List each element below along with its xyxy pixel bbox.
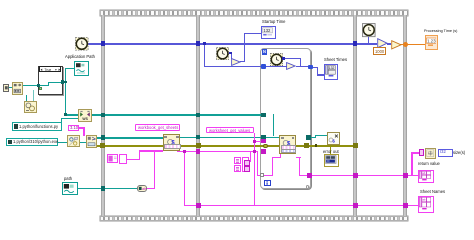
junction: case output joins app-path wire: [64, 81, 67, 84]
junction: label wire to loop y141: [253, 140, 256, 143]
Application Path terminal: [74, 61, 89, 76]
wire: inside case: [40, 85, 49, 86]
Sheet Times label: [324, 58, 347, 62]
svg-text:ab: ab: [142, 187, 146, 191]
flat sequence frame1|2 wall: [196, 15, 201, 216]
return value label: [418, 162, 440, 166]
wire: magenta return value line y175: [311, 175, 418, 177]
wire: magenta N4 out down: [296, 157, 301, 158]
wire: subtract2 out to vertical: [240, 61, 244, 62]
node N2 open session: [86, 135, 97, 147]
wire: clock2 output: [228, 53, 231, 54]
wire: main tick count blue line frame0-frame3: [88, 43, 377, 44]
for loop i terminal: [264, 180, 270, 186]
wire: clock4 drop frame3: [368, 37, 369, 43]
wire: subtract4 to divide: [387, 43, 391, 44]
wire: loop clock3 out: [283, 58, 301, 59]
flat sequence right wall: [403, 15, 408, 216]
svg-text:1.23: 1.23: [426, 39, 435, 44]
wire: magenta N3 down x184: [177, 151, 186, 152]
divide triangle frame3: [391, 40, 402, 50]
clock 2: [216, 47, 229, 60]
wire: python.exe to N11: [58, 142, 68, 143]
wire: icon2 to case: [23, 85, 38, 86]
tunnel: path control wire through left wall: [101, 186, 106, 191]
tunnel: tick wire through left wall: [101, 41, 106, 46]
case selector label: [39, 66, 62, 71]
junction: return wire at frame2|3 wall: [353, 173, 358, 178]
svg-text:$: $: [332, 138, 335, 143]
tunnel: error wire into for loop (oval): [263, 144, 269, 149]
3.10 constant: [68, 125, 79, 131]
for loop N terminal: [262, 49, 268, 54]
tick count clock 1: [75, 37, 89, 51]
wire: blue horiz into Startup Time: [244, 33, 262, 34]
tunnel: path wire through left wall: [101, 113, 106, 118]
tunnel: tick wire through frame1|2 wall: [196, 41, 201, 46]
junction: tick wire branch frame2: [203, 42, 206, 45]
wire: functions.py riser: [61, 118, 62, 122]
svg-text:ab: ab: [422, 198, 426, 202]
workbook_get_sheets label: [135, 124, 180, 131]
subtract triangle frame3: [377, 38, 388, 48]
wire: olive error drop to error out: [330, 147, 332, 155]
tunnel: session wire into for loop: [261, 135, 266, 140]
path constant python.exe: [6, 138, 58, 145]
tunnel: tick wire into for loop (left): [261, 64, 266, 69]
icon N0: [12, 82, 23, 95]
wire: case output to vertical: [63, 82, 67, 83]
tunnel: return wire out of for loop: [307, 173, 311, 177]
wire: inside loop session to N4: [266, 137, 280, 138]
tunnel: function-name wire into for loop: [261, 139, 266, 143]
path label: [64, 177, 72, 181]
tunnel: orange result through right wall: [403, 42, 409, 48]
tunnel: case structure right output: [61, 80, 64, 83]
tunnel: string wire through frame1|2 wall: [196, 149, 201, 154]
subtract triangle loop: [286, 62, 296, 70]
junction: return wire at right wall: [403, 173, 408, 178]
wire: magenta 3.10 to N2: [79, 127, 85, 128]
junction: app-path wire turns to N1: [64, 113, 67, 116]
Processing Time label: [424, 29, 457, 33]
tunnel: path wire into for loop: [261, 113, 266, 118]
wire: magenta N3 row y151 to loop: [177, 151, 258, 152]
tunnel: string wire into for loop: [261, 149, 266, 153]
wire: magenta into loop y141: [254, 141, 263, 142]
node N11 open python: [67, 135, 79, 147]
Startup Time label: [262, 20, 285, 24]
flat sequence bottom border: [100, 216, 408, 222]
case green constant: [39, 87, 42, 90]
wire: magenta cluster frame1: [127, 159, 140, 160]
svg-text:WS: WS: [82, 118, 88, 122]
for loop (inner): [260, 48, 311, 189]
svg-text:True: True: [44, 68, 51, 72]
for loop corner notch: [306, 185, 310, 189]
pink icon frame1 a: [107, 154, 119, 163]
path control terminal: [62, 182, 78, 196]
size(s) label: [453, 151, 465, 155]
size row: I32 box: [438, 149, 453, 158]
pink box frame1 b: [119, 154, 127, 163]
wire: N0 down to icon7: [26, 95, 27, 102]
worksheet_get_values label: [206, 127, 254, 133]
wire: magenta bottom line y205: [184, 205, 418, 207]
wire: N11 to N2: [80, 142, 87, 143]
icon7: [24, 101, 36, 113]
junction: clock2 output dot: [229, 52, 232, 55]
svg-text:132: 132: [329, 66, 335, 70]
return value indicator: [418, 170, 434, 184]
wire: inside loop path drop: [273, 114, 274, 135]
wire: magenta riser to size row: [411, 152, 413, 175]
wire: loop out to Sheet Times: [312, 67, 319, 68]
wire: magenta worksheet label vertical: [254, 133, 255, 205]
path constant functions.py: [12, 122, 62, 130]
junction: bottom string wire at frame1|2 wall: [196, 203, 201, 208]
close python node N5: [327, 132, 340, 145]
tunnel: session wire through frame1|2 wall: [196, 135, 201, 140]
tunnel: error wire out of for loop: [304, 143, 309, 148]
tunnel: error wire through left wall: [100, 143, 105, 148]
python node N3: [163, 134, 180, 150]
wire: N4 session out to N5: [311, 137, 316, 138]
tunnel: session wire through left wall: [101, 135, 106, 140]
Sheet Names indicator: [418, 196, 434, 213]
size row: array size node: [425, 148, 436, 159]
1000 constant: [373, 47, 387, 55]
size row: pink terminal: [419, 149, 424, 156]
Application Path label: [65, 55, 95, 59]
flat sequence frame2|3 wall: [353, 15, 357, 216]
wire: magenta inside loop from tunnel175: [263, 175, 273, 176]
subtract triangle frame2: [231, 58, 241, 66]
wire: olive error line: [97, 145, 356, 148]
wire: blue vertical drop frame2: [204, 43, 205, 66]
Processing Time indicator: [425, 35, 439, 49]
junction: label wire to loop y151: [253, 150, 256, 153]
flat sequence left wall: [101, 15, 105, 216]
tunnel: case structure left input: [37, 84, 40, 87]
wire: loop tunnel to subtract3: [266, 66, 287, 67]
tunnel: session wire out of for loop: [306, 135, 311, 140]
junction: bottom string wire at frame2|3 wall: [353, 203, 358, 208]
junction: bottom string wire at right wall: [403, 203, 408, 208]
wire: subtract3 out to right tunnel: [296, 66, 310, 67]
clock 3 in loop: [270, 53, 283, 66]
clock 4: [362, 23, 376, 37]
wire: orange divide out to Processing Time: [399, 44, 425, 45]
wire: session N2 to N3: [97, 137, 164, 138]
Startup Time indicator: [261, 26, 276, 39]
wire: magenta path node riser: [154, 150, 155, 189]
tunnel: error wire at frame2|3 wall: [353, 143, 358, 148]
wire: magenta cluster frame2 riser: [248, 160, 251, 161]
path to string node: [137, 185, 148, 192]
tunnel: tick wire through frame2|3 wall: [353, 41, 358, 46]
Sheet Times indicator: [324, 64, 339, 80]
junction: error wire dot right of loop: [315, 144, 318, 147]
icon1 small constant: [3, 84, 9, 91]
wire: session N3 to loop: [180, 137, 262, 138]
Sheet Names label: [420, 190, 445, 194]
wire: icon1 to icon2: [9, 87, 13, 88]
tunnel: hollow tunnel on loop left edge: [260, 173, 264, 177]
junction: N3 output branch down: [183, 150, 186, 153]
wire: teal App Path down: [65, 68, 66, 115]
error out label: [323, 150, 339, 154]
flat sequence top border: [100, 10, 408, 16]
wire: path control to frame1: [78, 188, 137, 189]
junction: clock3 output dot: [282, 57, 285, 60]
case structure: [38, 66, 63, 95]
wire: magenta x257.6 drop to tunnel175: [257, 151, 258, 175]
python node N4: [279, 135, 296, 154]
wire: blue vertical to Startup Time: [244, 33, 245, 62]
cluster constant boxes frame2: [234, 157, 241, 164]
tunnel: error wire through frame1|2 wall: [196, 143, 201, 148]
svg-text:132: 132: [263, 28, 271, 33]
error out indicator: [324, 154, 339, 166]
node N1: [78, 109, 92, 121]
tunnel: elapsed out of for loop (right): [308, 65, 313, 70]
wire: blue horiz y66 into loop: [204, 66, 262, 67]
wire: long teal path line y115: [65, 114, 263, 115]
tunnel: path wire through frame1|2 wall: [196, 113, 201, 118]
